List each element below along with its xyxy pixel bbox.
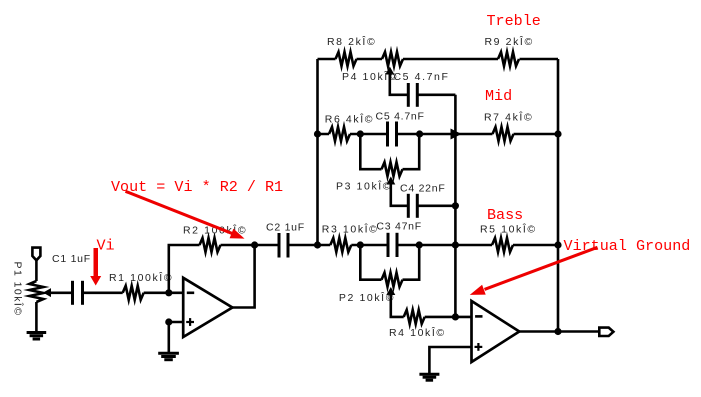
wire P1 to ground [35, 302, 38, 332]
node on + wire [165, 318, 172, 325]
output terminal [599, 328, 613, 336]
wire non-inverting U2 [429, 347, 471, 373]
U1 minus [187, 291, 194, 294]
arrow (Vout) [126, 191, 245, 238]
svg-text:Bass: Bass [487, 206, 523, 224]
resistor R9 [498, 52, 519, 66]
node bus/R4 [452, 313, 459, 320]
wiper arrow P1 [43, 288, 51, 297]
node right bus / mid [554, 130, 561, 137]
wire R1 to op-amp [144, 291, 184, 294]
node right bus / bass [554, 241, 561, 248]
svg-text:R7 4kÎ©: R7 4kÎ© [484, 110, 533, 123]
ground (P1) [27, 333, 47, 340]
svg-text:P2 10kÎ©: P2 10kÎ© [339, 291, 395, 304]
resistor R6 [329, 127, 350, 141]
wire right bus [557, 59, 560, 332]
wire node down to output [232, 245, 254, 308]
node mid/P3 left [357, 130, 364, 137]
svg-text:P1 10kÎ©: P1 10kÎ© [12, 262, 25, 317]
resistor R1 [123, 286, 144, 300]
wire wiper to C1 [50, 291, 73, 294]
svg-text:R9 2kÎ©: R9 2kÎ© [485, 35, 534, 48]
wire feedback up [169, 245, 200, 293]
svg-text:C3 47nF: C3 47nF [376, 221, 422, 233]
wire bass row [318, 244, 559, 247]
capacitor C2 [279, 233, 288, 258]
node (U1 inverting input) [165, 289, 172, 296]
capacitor C1 [73, 281, 83, 305]
arrow into virtual-ground bus (mid) [451, 129, 462, 140]
wire non-inverting U1 [169, 322, 183, 352]
resistor R3 [330, 238, 351, 252]
U2 minus [475, 315, 482, 318]
node bass/P2 right [416, 241, 423, 248]
wiper arrow P2 [386, 287, 395, 295]
capacitor C3 [388, 233, 397, 257]
wire node to C2 [255, 244, 279, 247]
svg-text:R3 10kÎ©: R3 10kÎ© [322, 222, 379, 235]
wire terminal to P1 [35, 260, 38, 281]
node left bus / mid [314, 130, 321, 137]
capacitor C4 [408, 194, 417, 218]
resistor R5 [492, 238, 513, 252]
node bass/P2 left [357, 241, 364, 248]
node right bus / output [554, 328, 561, 335]
node bus/bass [452, 241, 459, 248]
wire treble row [318, 58, 559, 61]
svg-text:Vi: Vi [97, 237, 115, 255]
potentiometer P2 [382, 273, 403, 287]
input terminal [32, 248, 40, 261]
node left bus / bass [314, 241, 321, 248]
op-amp U1 [183, 278, 232, 337]
svg-text:R5 10kÎ©: R5 10kÎ© [480, 222, 537, 235]
svg-text:R4 10kÎ©: R4 10kÎ© [389, 326, 446, 339]
wire C1 to R1 [83, 291, 123, 294]
arrow (Virtual Ground) [470, 247, 598, 295]
svg-text:Mid: Mid [485, 87, 512, 105]
wiper arrow P4 [385, 67, 394, 75]
wire left bus [316, 59, 319, 245]
svg-text:Vout = Vi * R2 / R1: Vout = Vi * R2 / R1 [111, 178, 283, 196]
svg-text:C5 4.7nF: C5 4.7nF [376, 111, 425, 123]
svg-text:R8 2kÎ©: R8 2kÎ© [327, 35, 376, 48]
potentiometer P4 [382, 52, 403, 66]
ground (U2) [419, 374, 439, 380]
wire output [519, 330, 599, 333]
capacitor C5 (mid) [388, 122, 397, 147]
svg-text:C4 22nF: C4 22nF [400, 183, 446, 195]
resistor R4 [404, 310, 425, 324]
node mid/P3 right [416, 130, 423, 137]
resistor R2 [200, 238, 221, 252]
wire P2 wiper to R4 [391, 294, 404, 317]
capacitor C5 (treble) [408, 83, 417, 107]
svg-text:R1 100kÎ©: R1 100kÎ© [109, 271, 173, 284]
potentiometer P3 [382, 162, 403, 176]
wire R2 to node [221, 244, 255, 247]
svg-text:C1 1uF: C1 1uF [52, 253, 91, 265]
wire mid row [318, 133, 559, 136]
wire C5 treble to bus [417, 94, 455, 97]
svg-text:P3 10kÎ©: P3 10kÎ© [336, 180, 392, 193]
wire C2 to left bus [288, 244, 318, 247]
arrow (Vi) [90, 248, 101, 286]
potentiometer P2 loop [360, 245, 419, 280]
potentiometer P3 loop [360, 134, 419, 169]
U2 plus [475, 343, 483, 351]
potentiometer P1 [29, 281, 43, 302]
svg-text:Treble: Treble [487, 12, 541, 30]
wiper arrow P3 [386, 177, 395, 185]
wire R4 to op-amp U2 [425, 316, 472, 319]
wire virtual-ground bus [454, 95, 457, 317]
ground (U1) [158, 353, 179, 359]
svg-text:C5 4.7nF: C5 4.7nF [394, 71, 450, 83]
resistor R8 [336, 52, 357, 66]
wire C4 to bus [417, 205, 455, 208]
wire P3 wiper to C4 [391, 184, 409, 206]
svg-text:R6 4kÎ©: R6 4kÎ© [325, 112, 374, 125]
op-amp U2 [472, 301, 520, 362]
resistor R7 [493, 127, 514, 141]
svg-text:C2 1uF: C2 1uF [266, 221, 305, 233]
wire P4 wiper down [390, 73, 409, 95]
node (U1 output / C2) [251, 241, 258, 248]
node C4/bus [452, 202, 459, 209]
U1 plus [186, 318, 194, 326]
